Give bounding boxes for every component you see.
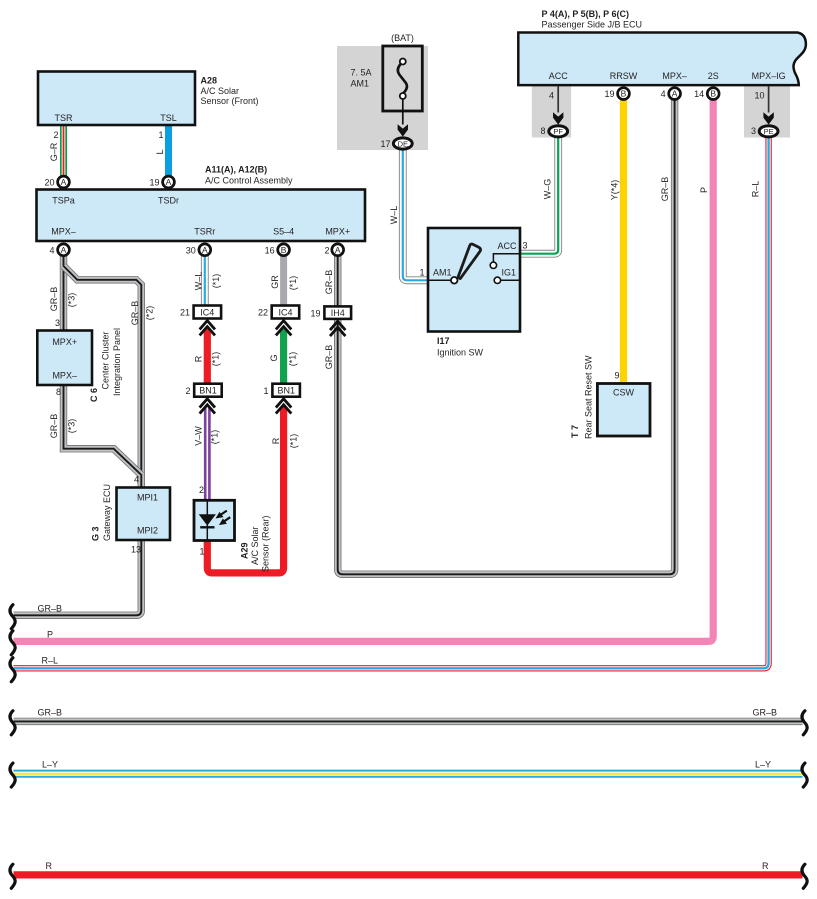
- svg-text:W–L: W–L: [194, 272, 204, 291]
- svg-text:S5–4: S5–4: [273, 227, 294, 237]
- wire W-G from J/B PF to I17 ACC pin 3: [520, 137, 558, 254]
- label R bottom bus left: [46, 861, 53, 871]
- svg-text:(*1): (*1): [210, 430, 220, 445]
- svg-text:G–R: G–R: [49, 142, 59, 161]
- svg-text:Integration Panel: Integration Panel: [112, 328, 122, 396]
- fuse 7.5A AM1 rectangle: [383, 46, 423, 111]
- svg-text:8: 8: [56, 387, 61, 397]
- photodiode symbol in A29: [199, 502, 231, 541]
- svg-text:8: 8: [540, 126, 545, 136]
- svg-text:21: 21: [180, 308, 190, 318]
- svg-text:L–Y: L–Y: [755, 760, 771, 770]
- wire R-L from J/B PE to left break: [14, 137, 769, 669]
- svg-text:(*1): (*1): [211, 274, 221, 289]
- chevron below IC4 21: [200, 321, 215, 336]
- svg-text:A/C Control Assembly: A/C Control Assembly: [205, 175, 293, 185]
- svg-text:A: A: [335, 245, 341, 255]
- label W-L riser: [389, 206, 399, 225]
- svg-text:Passenger Side J/B ECU: Passenger Side J/B ECU: [542, 20, 643, 30]
- svg-text:1: 1: [419, 268, 424, 278]
- svg-text:A/C Solar: A/C Solar: [250, 526, 260, 565]
- svg-text:T 7: T 7: [570, 425, 580, 438]
- svg-text:(*3): (*3): [67, 419, 77, 434]
- connector pin 19 (A): [149, 176, 174, 188]
- break symbol L-Y bus left: [10, 763, 15, 787]
- svg-text:(*1): (*1): [211, 352, 221, 367]
- svg-text:GR–B: GR–B: [660, 177, 670, 202]
- svg-text:(*1): (*1): [288, 276, 298, 291]
- wire Y (*4) from RRSW pin 19(B) to CSW pin 9: [620, 100, 627, 385]
- P4 P5 P6 Passenger Side J/B ECU box: [518, 33, 806, 86]
- junction BN1 pin 1: [263, 384, 299, 397]
- label R (*1) column TSRr: [193, 352, 220, 367]
- label pin 8 and GR-B (*3) lower: [49, 387, 77, 438]
- label GR-B bottom bus left: [38, 708, 63, 718]
- connector pin 4 (A) MPX-: [49, 244, 69, 256]
- label T 7 Rear Seat Reset SW: [570, 355, 594, 439]
- svg-text:MPX+: MPX+: [325, 227, 350, 237]
- wire R (*1) from IC4 21 to BN1 2: [204, 329, 211, 385]
- label pin 4 and pin 13 of G3: [131, 475, 141, 555]
- label GR-B column MPX+ lower: [324, 345, 334, 370]
- chevron below IC4 22: [276, 321, 291, 336]
- label GR-B (*3) upper: [49, 287, 77, 328]
- svg-text:22: 22: [258, 308, 268, 318]
- svg-text:19: 19: [310, 309, 320, 319]
- label pin 1 and L: [155, 130, 165, 155]
- arrow into DE: [398, 124, 408, 136]
- C6 Center Cluster Integration Panel box: [37, 331, 92, 386]
- svg-text:GR–B: GR–B: [753, 708, 778, 718]
- svg-text:P 4(A), P 5(B), P 6(C): P 4(A), P 5(B), P 6(C): [542, 9, 630, 19]
- svg-text:MPX+: MPX+: [52, 337, 77, 347]
- svg-text:L–Y: L–Y: [42, 760, 58, 770]
- label GR (*1) column S5-4: [270, 275, 298, 291]
- label R-L horizontal: [42, 656, 59, 666]
- label GR-B bottom bus right: [753, 708, 778, 718]
- svg-text:B: B: [621, 89, 627, 99]
- svg-text:CSW: CSW: [613, 388, 635, 398]
- label V-W (*1): [194, 426, 220, 446]
- wire GR-B from MPX- pin 4(A) to C6 MPX+ pin 3: [60, 256, 67, 332]
- svg-text:GR–B: GR–B: [49, 287, 59, 312]
- svg-text:R–L: R–L: [751, 181, 761, 198]
- svg-text:7. 5A: 7. 5A: [351, 68, 372, 78]
- labels inside I17: [433, 241, 517, 278]
- svg-text:4: 4: [549, 91, 554, 101]
- label A29 pins 2 and 1: [199, 485, 205, 557]
- connector pin 2 (A) MPX+: [324, 244, 343, 256]
- label L-Y bottom bus right: [755, 760, 771, 770]
- svg-text:P: P: [47, 630, 53, 640]
- svg-text:2: 2: [53, 130, 58, 140]
- svg-text:G: G: [269, 354, 279, 361]
- label pin 2 and G-R: [49, 130, 59, 161]
- switch lever: [458, 244, 481, 279]
- svg-text:Ignition SW: Ignition SW: [437, 348, 484, 358]
- wire L-Y bottom bus: [14, 770, 803, 778]
- connector pin 14 (B) 2S: [694, 88, 719, 100]
- label GR-B (*2): [130, 301, 155, 326]
- svg-text:2: 2: [324, 245, 329, 255]
- junction IH4 pin 19: [310, 306, 351, 319]
- break symbol GR-B from G3: [10, 605, 15, 629]
- label GR-B riser right: [660, 177, 670, 202]
- wire GR-B (*2) branch to Gateway ECU pin 4: [64, 266, 142, 489]
- svg-text:W–G: W–G: [543, 179, 553, 200]
- svg-text:GR–B: GR–B: [49, 414, 59, 439]
- label P riser: [699, 187, 709, 193]
- svg-text:MPX–IG: MPX–IG: [752, 71, 786, 81]
- A11(A) A12(B) A/C Control Assembly box: [37, 190, 366, 242]
- label Y(*4) riser: [610, 180, 620, 201]
- wire W-L from fuse DE to I17 AM1 pin 1: [403, 150, 428, 281]
- wire W-L from TSRr pin 30(A) to IC4 21: [201, 256, 209, 308]
- svg-text:PE: PE: [764, 127, 774, 136]
- svg-text:R: R: [46, 861, 53, 871]
- svg-text:TSR: TSR: [55, 113, 74, 123]
- connector pin 19 (B) RRSW: [604, 88, 629, 100]
- label R-L riser: [751, 181, 761, 198]
- svg-text:3: 3: [55, 318, 60, 328]
- break symbol P left: [10, 631, 15, 655]
- svg-text:GR–B: GR–B: [324, 270, 334, 295]
- svg-text:ACC: ACC: [497, 241, 517, 251]
- junction IC4 pin 22: [258, 306, 299, 319]
- svg-text:1: 1: [263, 386, 268, 396]
- break symbol R bus left: [10, 864, 15, 888]
- A29 A/C Solar Sensor (Rear) box: [194, 500, 235, 540]
- svg-text:Y(*4): Y(*4): [610, 180, 620, 201]
- label P 4(A), P 5(B), P 6(C) title: [542, 9, 643, 30]
- svg-text:17: 17: [380, 139, 390, 149]
- svg-text:W–L: W–L: [389, 206, 399, 225]
- svg-text:Sensor (Front): Sensor (Front): [201, 96, 259, 106]
- svg-text:2: 2: [185, 386, 190, 396]
- connector panel gray background MPX-IG/PE: [744, 86, 790, 138]
- svg-text:G 3: G 3: [91, 526, 101, 541]
- wire GR-B from IH4 to J/B ECU MPX- pin 4(A): [338, 100, 675, 575]
- svg-text:MPI2: MPI2: [137, 526, 158, 536]
- svg-text:PF: PF: [553, 127, 563, 136]
- label I17 Ignition SW: [437, 336, 484, 358]
- svg-text:30: 30: [186, 245, 196, 255]
- label R (*1) rear sensor riser: [271, 434, 299, 449]
- wire R bottom bus: [14, 871, 803, 878]
- label W-L (*1) column TSRr: [194, 272, 222, 291]
- label GR-B column MPX+ upper: [324, 270, 334, 295]
- G3 Gateway ECU box: [117, 488, 171, 541]
- label R bottom bus right: [762, 861, 769, 871]
- svg-text:IC4: IC4: [278, 308, 292, 318]
- svg-text:BN1: BN1: [277, 386, 295, 396]
- svg-text:(*1): (*1): [288, 352, 298, 367]
- ACC drop line and arrow: [553, 86, 563, 124]
- svg-text:RRSW: RRSW: [610, 71, 638, 81]
- svg-text:4: 4: [134, 475, 139, 485]
- svg-text:13: 13: [131, 545, 141, 555]
- label G (*1): [269, 352, 298, 367]
- svg-text:MPX–: MPX–: [662, 71, 687, 81]
- svg-text:MPX–: MPX–: [51, 227, 76, 237]
- svg-text:R–L: R–L: [42, 656, 59, 666]
- wire L from A28 TSL pin 1 to pin 19: [165, 124, 172, 177]
- chevron below BN1 1: [276, 399, 291, 414]
- svg-text:(*1): (*1): [289, 434, 299, 449]
- svg-text:19: 19: [149, 178, 159, 188]
- svg-text:A: A: [61, 177, 67, 187]
- svg-text:B: B: [710, 89, 716, 99]
- svg-text:GR–B: GR–B: [38, 604, 63, 614]
- chevron below BN1 2: [200, 399, 215, 414]
- svg-text:MPX–: MPX–: [52, 371, 77, 381]
- svg-text:A28: A28: [201, 76, 218, 86]
- connector panel gray background ACC/PF: [532, 86, 571, 138]
- svg-text:14: 14: [694, 89, 704, 99]
- svg-text:2S: 2S: [708, 71, 719, 81]
- svg-text:GR–B: GR–B: [38, 708, 63, 718]
- wire GR from S5-4 pin 16(B) to IC4 22: [280, 256, 287, 308]
- label C 6 Center Cluster Integration Panel: [89, 328, 122, 402]
- label (BAT): [391, 33, 414, 43]
- A28 A/C Solar Sensor (Front) box: [38, 72, 195, 126]
- break symbol L-Y bus right: [802, 763, 807, 787]
- label A28 title: [201, 76, 259, 107]
- svg-text:TSL: TSL: [160, 113, 177, 123]
- wire G-R from A28 TSR pin 2 to pin 20: [60, 124, 67, 177]
- wire GR-B (*3) from C6 MPX- pin 8 joining at junction: [64, 384, 142, 475]
- wire GR-B from Gateway ECU pin 13 to left break: [14, 539, 142, 615]
- svg-text:AM1: AM1: [433, 268, 452, 278]
- T7 CSW Rear Seat Reset SW box: [597, 384, 650, 437]
- svg-text:DE: DE: [398, 139, 408, 148]
- label pin 9 of CSW: [614, 371, 619, 381]
- switch contact AM1: [428, 277, 458, 284]
- svg-text:TSDr: TSDr: [158, 196, 179, 206]
- svg-text:V–W: V–W: [194, 426, 204, 446]
- connector oval PE pin 3: [751, 91, 778, 137]
- svg-text:P: P: [699, 187, 709, 193]
- connector pin 16 (B) S5-4: [265, 244, 290, 256]
- svg-text:B: B: [281, 245, 287, 255]
- svg-text:(*3): (*3): [67, 293, 77, 308]
- label 7.5A AM1: [351, 68, 372, 89]
- svg-text:A: A: [166, 177, 172, 187]
- wire V-W (*1) from BN1 2 to A29 pin 2: [204, 407, 211, 502]
- svg-text:9: 9: [614, 371, 619, 381]
- svg-text:1: 1: [158, 130, 163, 140]
- label A29 A/C Solar Sensor (Rear): [240, 515, 271, 572]
- svg-text:R: R: [193, 355, 203, 362]
- connector pin 4 (A) J/B MPX-: [661, 88, 681, 100]
- svg-text:Sensor (Rear): Sensor (Rear): [261, 515, 271, 572]
- fuse element S-curve with terminals: [398, 59, 407, 125]
- svg-text:IG1: IG1: [502, 268, 517, 278]
- break symbol R-L left: [10, 658, 15, 682]
- wire G (*1) from IC4 22 to BN1 1: [280, 329, 287, 385]
- label A11(A), A12(B) title: [205, 164, 293, 185]
- label L-Y bottom bus left: [42, 760, 58, 770]
- label P horizontal: [47, 630, 53, 640]
- chevron below IH4: [330, 321, 345, 336]
- svg-text:TSPa: TSPa: [52, 196, 75, 206]
- label pin 1 and pin 3 of I17: [419, 241, 527, 278]
- svg-text:TSRr: TSRr: [194, 227, 215, 237]
- svg-text:MPI1: MPI1: [137, 493, 158, 503]
- svg-text:L: L: [155, 149, 165, 154]
- label GR-B left break wire: [38, 604, 63, 614]
- svg-text:GR–B: GR–B: [324, 345, 334, 370]
- switch contact IG1: [494, 277, 520, 283]
- svg-text:19: 19: [604, 89, 614, 99]
- svg-text:A11(A), A12(B): A11(A), A12(B): [205, 164, 267, 174]
- connector pin 20 (A): [44, 176, 69, 188]
- connector oval PF pin 8: [540, 91, 567, 137]
- svg-text:A/C Solar: A/C Solar: [201, 86, 240, 96]
- I17 Ignition SW box: [428, 228, 520, 332]
- svg-text:I17: I17: [437, 336, 450, 346]
- svg-text:IH4: IH4: [331, 308, 345, 318]
- svg-text:C 6: C 6: [89, 388, 99, 402]
- svg-text:1: 1: [199, 547, 204, 557]
- svg-text:Center Cluster: Center Cluster: [101, 331, 111, 389]
- svg-text:(*2): (*2): [145, 306, 155, 321]
- svg-text:R: R: [762, 861, 769, 871]
- wire GR-B from MPX+ pin 2(A) to IH4: [334, 256, 341, 308]
- break symbol GR-B bus right: [802, 711, 807, 735]
- svg-text:2: 2: [199, 485, 204, 495]
- svg-text:Gateway ECU: Gateway ECU: [102, 484, 112, 541]
- label W-G riser: [543, 179, 553, 200]
- junction BN1 pin 2: [185, 384, 221, 397]
- svg-text:4: 4: [661, 89, 666, 99]
- svg-text:(BAT): (BAT): [391, 33, 414, 43]
- svg-text:GR: GR: [270, 275, 280, 289]
- wire GR-B bottom bus: [14, 718, 803, 725]
- svg-text:A: A: [202, 245, 208, 255]
- svg-text:10: 10: [754, 91, 764, 101]
- svg-text:16: 16: [265, 245, 275, 255]
- svg-text:BN1: BN1: [199, 386, 217, 396]
- svg-text:A: A: [61, 245, 67, 255]
- svg-text:3: 3: [751, 126, 756, 136]
- svg-text:4: 4: [49, 245, 54, 255]
- switch contact ACC with link: [490, 254, 520, 269]
- wire P from 2S pin 14(B) to left break: [14, 100, 714, 642]
- svg-text:R: R: [271, 437, 281, 444]
- connector pin 30 (A) TSRr: [186, 244, 211, 256]
- svg-text:IC4: IC4: [200, 308, 214, 318]
- MPX-IG drop line and arrow: [763, 86, 773, 124]
- svg-text:A: A: [672, 89, 678, 99]
- break symbol R bus right: [802, 864, 807, 888]
- svg-text:20: 20: [44, 178, 54, 188]
- svg-text:A29: A29: [240, 542, 250, 559]
- connector oval DE pin 17: [380, 138, 412, 149]
- svg-text:GR–B: GR–B: [130, 301, 140, 326]
- junction IC4 pin 21: [180, 306, 221, 319]
- svg-text:Rear Seat Reset SW: Rear Seat Reset SW: [584, 355, 594, 439]
- svg-text:ACC: ACC: [549, 71, 569, 81]
- break symbol GR-B bus left: [10, 711, 15, 735]
- wire R thick from A29 pin 1 to BN1 1: [207, 407, 283, 573]
- fuse panel gray background: [337, 46, 428, 150]
- svg-text:AM1: AM1: [351, 79, 370, 89]
- svg-text:3: 3: [523, 241, 528, 251]
- label G 3 Gateway ECU: [91, 484, 113, 541]
